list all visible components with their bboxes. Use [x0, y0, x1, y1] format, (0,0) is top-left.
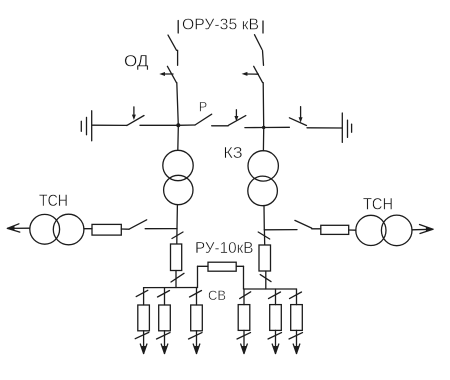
wire right feeder top tick	[262, 21, 264, 33]
label ОД	[124, 52, 149, 71]
feeder 5 right section	[268, 289, 282, 354]
label ТСН left	[39, 191, 68, 210]
feeder 1 left section	[135, 288, 149, 354]
svg-text:ТСН: ТСН	[39, 191, 68, 210]
disconnector blade left feeder top	[168, 35, 177, 50]
tick right incomer upper	[258, 232, 270, 239]
svg-text:ТСН: ТСН	[363, 195, 393, 214]
transformer T2 right main	[248, 151, 279, 206]
feeder 6 right section	[289, 289, 303, 354]
wire right feeder to 35kV bus	[262, 83, 265, 128]
disconnector ОД blade left feeder	[167, 66, 176, 82]
wire fuse to switch left ТСН	[121, 228, 129, 230]
tick right incomer lower	[260, 275, 271, 282]
transformer ТСН right	[356, 215, 412, 246]
disconnector Р blade	[195, 114, 212, 125]
wire left incomer below ТСН junction	[176, 229, 178, 244]
ground left	[81, 111, 91, 141]
wire ТСН left to fuse	[84, 228, 92, 230]
label КЗ	[223, 145, 242, 162]
wire left transformer to ТСН junction	[176, 205, 178, 229]
svg-text:СВ: СВ	[208, 287, 226, 303]
svg-text:РУ-10кВ: РУ-10кВ	[195, 240, 254, 257]
label Р	[199, 98, 208, 114]
wire left feeder top tick	[177, 21, 179, 34]
wire left feeder junction to transformer	[177, 127, 180, 150]
svg-text:КЗ: КЗ	[223, 145, 242, 162]
wire left feeder upper segment	[177, 50, 179, 65]
label ОРУ-35 кВ	[182, 17, 259, 34]
label РУ-10кВ	[195, 240, 254, 257]
tick left incomer upper	[172, 232, 183, 239]
arrow of left bus switch	[132, 107, 136, 120]
breaker right incomer	[259, 245, 271, 271]
disconnector blade left ТСН	[129, 220, 147, 229]
arrow of ОД right feeder	[242, 72, 259, 76]
node right feeder junction	[262, 126, 265, 129]
wire 35kV bus to left feeder junction	[140, 124, 178, 126]
breaker left incomer	[171, 244, 182, 271]
wire 35kV bus left of Р	[178, 124, 195, 126]
feeder 3 left section	[189, 288, 203, 354]
wire 35kV bus to right ground	[307, 127, 342, 129]
label ТСН right	[363, 195, 393, 214]
wire 35kV bus from left ground	[92, 124, 126, 126]
wire right incomer below ТСН junction	[263, 230, 265, 245]
wire 35kV bus to right feeder junction	[245, 127, 264, 129]
wire right feeder upper segment	[263, 51, 264, 66]
arrow of ОД left feeder	[159, 72, 173, 76]
disconnector blade right ТСН	[295, 220, 312, 228]
wire left feeder to 35kV bus	[177, 83, 179, 126]
fuse ТСН right	[321, 225, 349, 234]
wire 35kV bus middle segment	[212, 125, 229, 127]
wire right transformer to ТСН junction	[263, 206, 265, 230]
wire right incomer to bus	[265, 271, 267, 289]
wire 35kV bus right of junction	[264, 126, 290, 128]
wire right feeder junction to transformer	[262, 130, 264, 151]
feeder 2 left section	[157, 288, 171, 354]
disconnector blade middle bus switch	[228, 116, 245, 126]
ground right	[342, 113, 351, 142]
wire 10kV bus right section	[244, 288, 297, 290]
disconnector blade right bus switch	[289, 118, 306, 126]
feeder 4 right section	[237, 289, 251, 354]
label СВ	[208, 287, 226, 303]
breaker СВ section	[208, 262, 236, 271]
arrow right ТСН output	[412, 225, 433, 234]
wire right feeder to right ТСН	[264, 229, 297, 231]
transformer ТСН left	[30, 214, 84, 245]
wire left incomer to bus	[175, 271, 177, 288]
arrow left ТСН output	[7, 224, 30, 232]
transformer T1 left main	[163, 150, 193, 204]
wire left ТСН to left feeder	[145, 228, 177, 230]
wire СВ right riser	[236, 266, 243, 289]
disconnector blade right feeder top	[255, 35, 263, 50]
svg-text:Р: Р	[199, 98, 208, 114]
arrow of right bus switch	[299, 107, 303, 123]
wire СВ left riser	[198, 266, 209, 287]
wire 10kV bus left section	[144, 287, 198, 289]
svg-text:ОД: ОД	[124, 52, 149, 71]
fuse ТСН left	[92, 224, 121, 235]
svg-text:ОРУ-35 кВ: ОРУ-35 кВ	[182, 17, 259, 34]
disconnector ОД blade right feeder	[254, 66, 263, 82]
tick left incomer lower	[171, 273, 184, 282]
disconnector blade left bus switch	[127, 116, 144, 126]
wire switch to fuse right ТСН	[312, 228, 321, 230]
node left feeder junction	[176, 123, 180, 127]
wire fuse to transformer right ТСН	[349, 229, 356, 231]
arrow of middle bus switch	[234, 110, 238, 122]
